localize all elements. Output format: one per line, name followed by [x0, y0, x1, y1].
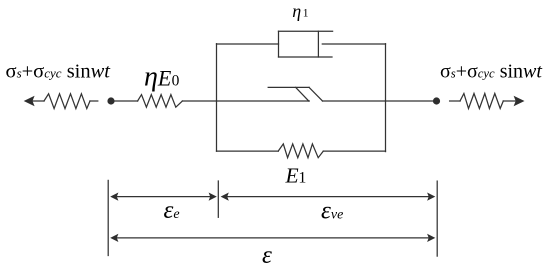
svg-text:1: 1 [303, 8, 309, 20]
svg-text:η: η [292, 1, 301, 21]
svg-text:1: 1 [298, 170, 306, 187]
svg-text:E: E [285, 163, 299, 187]
svg-text:ε: ε [262, 242, 272, 269]
